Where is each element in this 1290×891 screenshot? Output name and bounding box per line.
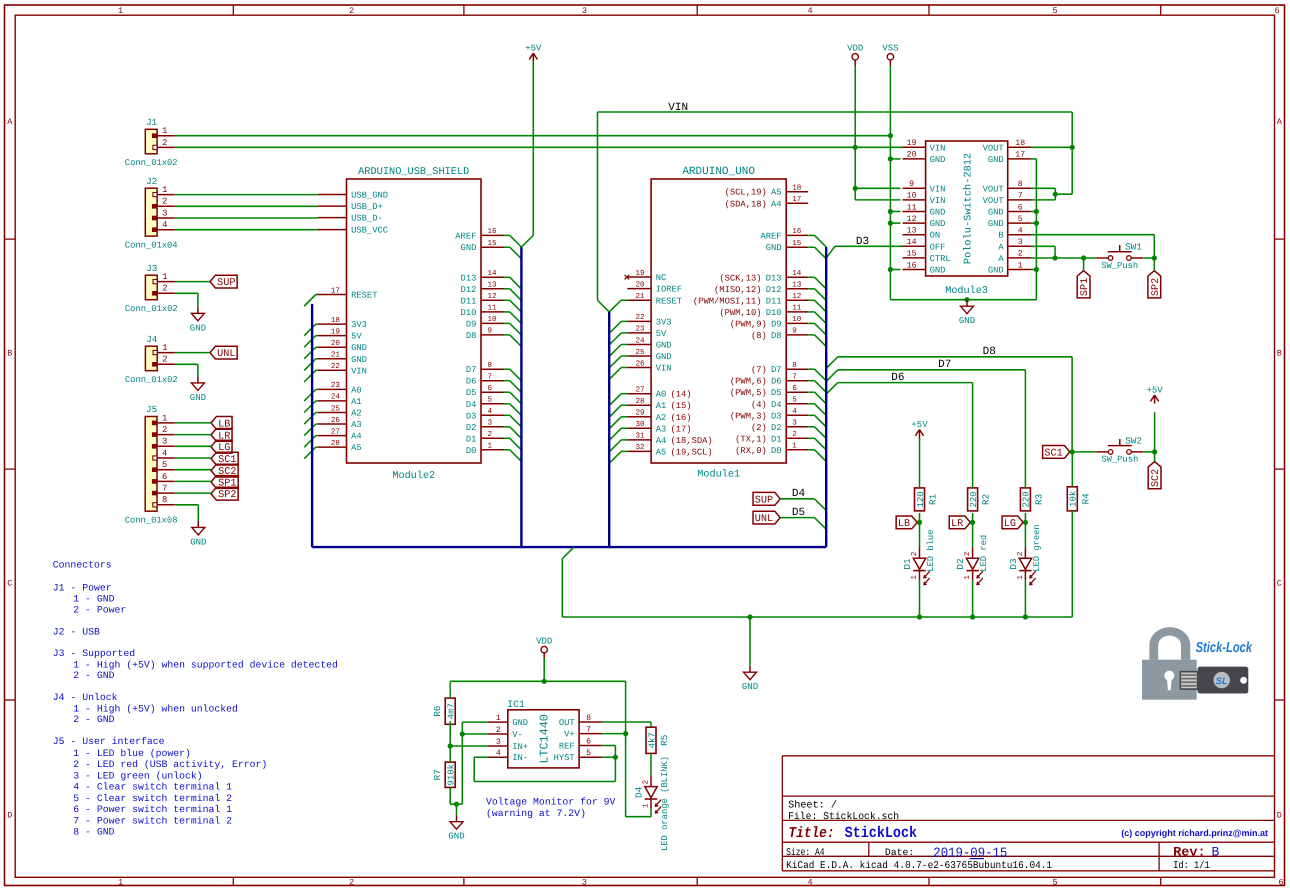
svg-text:19: 19 [907, 139, 917, 148]
svg-text:5: 5 [1018, 215, 1023, 224]
svg-text:A3: A3 [351, 420, 362, 430]
svg-text:2 - GND: 2 - GND [73, 670, 114, 681]
svg-text:3 - LED green (unlock): 3 - LED green (unlock) [73, 771, 202, 782]
svg-text:+5V: +5V [911, 420, 928, 430]
svg-text:VDD: VDD [847, 44, 863, 54]
svg-text:VDD: VDD [536, 636, 552, 646]
svg-text:7: 7 [1018, 192, 1023, 201]
svg-text:2 - LED red (USB activity, Err: 2 - LED red (USB activity, Error) [73, 759, 267, 770]
svg-text:(RX,0): (RX,0) [735, 446, 767, 456]
svg-text:2: 2 [963, 551, 972, 556]
svg-text:LED blue: LED blue [926, 530, 936, 572]
svg-text:8: 8 [586, 714, 591, 723]
svg-text:A3: A3 [656, 424, 667, 434]
svg-text:D4: D4 [771, 400, 782, 410]
svg-text:D2: D2 [771, 423, 782, 433]
svg-text:D11: D11 [766, 296, 782, 306]
svg-text:1: 1 [162, 272, 167, 282]
svg-text:5 - Clear switch terminal 2: 5 - Clear switch terminal 2 [73, 793, 232, 804]
svg-text:A: A [998, 254, 1004, 264]
svg-text:5: 5 [586, 749, 591, 758]
svg-text:A: A [1277, 117, 1283, 127]
svg-text:14: 14 [488, 270, 498, 278]
svg-text:27: 27 [331, 427, 340, 436]
svg-text:GND: GND [988, 155, 1004, 165]
svg-text:4k7: 4k7 [647, 732, 657, 748]
svg-text:ON: ON [930, 231, 941, 241]
svg-text:Title:: Title: [789, 825, 835, 842]
svg-text:28: 28 [331, 439, 341, 448]
svg-text:23: 23 [635, 325, 645, 334]
svg-text:D1: D1 [902, 558, 913, 570]
svg-text:R1: R1 [928, 493, 939, 505]
svg-text:OFF: OFF [930, 242, 946, 252]
svg-text:A0: A0 [656, 390, 667, 400]
svg-text:J1: J1 [146, 117, 158, 128]
svg-text:3: 3 [162, 437, 167, 447]
svg-text:1: 1 [162, 413, 167, 423]
svg-text:J3 - Supported: J3 - Supported [53, 648, 135, 659]
svg-text:(PWM/MOSI,11): (PWM/MOSI,11) [693, 296, 762, 306]
svg-text:SP2: SP2 [218, 490, 236, 501]
svg-text:(8): (8) [751, 331, 767, 341]
svg-text:VIN: VIN [930, 196, 946, 206]
svg-text:5: 5 [792, 397, 797, 405]
svg-text:8: 8 [488, 361, 493, 370]
svg-text:Voltage Monitor for 9V: Voltage Monitor for 9V [486, 797, 615, 808]
svg-text:6: 6 [586, 737, 591, 746]
svg-text:1 - GND: 1 - GND [73, 594, 114, 605]
svg-text:Stick-Lock: Stick-Lock [1196, 640, 1253, 656]
svg-text:J1 - Power: J1 - Power [53, 582, 112, 593]
svg-text:D3: D3 [771, 411, 782, 421]
svg-text:D8: D8 [983, 346, 996, 358]
svg-text:15: 15 [792, 240, 802, 248]
svg-text:A1: A1 [656, 401, 667, 411]
svg-text:1: 1 [118, 878, 123, 888]
svg-text:GND: GND [742, 682, 758, 692]
svg-text:10: 10 [488, 315, 498, 324]
svg-text:20: 20 [331, 339, 341, 348]
svg-text:GND: GND [988, 219, 1004, 229]
svg-text:D4: D4 [792, 488, 806, 500]
svg-text:Connectors: Connectors [53, 560, 112, 571]
svg-text:7: 7 [586, 725, 591, 734]
svg-text:20: 20 [635, 280, 645, 289]
svg-text:NC: NC [656, 273, 667, 283]
svg-text:9: 9 [488, 327, 493, 336]
svg-text:SC1: SC1 [1044, 448, 1062, 459]
svg-text:A4: A4 [656, 436, 667, 446]
svg-text:16: 16 [792, 227, 802, 236]
svg-text:(19,SCL): (19,SCL) [670, 447, 712, 457]
svg-text:1 - LED blue (power): 1 - LED blue (power) [73, 748, 191, 759]
svg-text:GND: GND [930, 155, 946, 165]
svg-text:18: 18 [331, 316, 341, 325]
svg-text:3: 3 [582, 878, 587, 888]
svg-text:(PWM,10): (PWM,10) [719, 308, 761, 318]
svg-text:(SCK,13): (SCK,13) [719, 273, 761, 283]
svg-text:UNL: UNL [755, 514, 773, 525]
svg-text:15: 15 [488, 240, 498, 248]
svg-text:5: 5 [1052, 6, 1057, 16]
svg-text:REF: REF [559, 742, 575, 752]
svg-text:A5: A5 [351, 443, 362, 453]
svg-text:13: 13 [792, 281, 802, 290]
svg-text:LTC1440: LTC1440 [538, 714, 552, 764]
svg-text:9: 9 [909, 180, 914, 189]
svg-text:(15): (15) [670, 401, 691, 411]
svg-text:18: 18 [1015, 139, 1025, 148]
svg-text:3: 3 [162, 208, 167, 218]
svg-text:17: 17 [792, 196, 801, 204]
svg-text:8: 8 [162, 495, 167, 505]
svg-text:6: 6 [488, 384, 493, 393]
svg-text:D9: D9 [771, 319, 782, 329]
svg-text:SW_Push: SW_Push [1101, 261, 1138, 271]
svg-text:D10: D10 [461, 308, 477, 318]
svg-text:3: 3 [1018, 238, 1023, 247]
svg-text:13: 13 [488, 281, 498, 290]
svg-text:4: 4 [792, 408, 797, 416]
svg-text:D6: D6 [466, 377, 477, 387]
svg-text:OUT: OUT [559, 718, 575, 728]
svg-text:GND: GND [959, 316, 975, 326]
svg-text:9: 9 [792, 327, 797, 336]
svg-text:GND: GND [448, 832, 464, 842]
svg-text:26: 26 [635, 359, 645, 368]
svg-text:D1: D1 [466, 434, 477, 444]
svg-text:SUP: SUP [755, 495, 773, 506]
svg-text:1: 1 [118, 6, 123, 16]
svg-text:(18,SDA): (18,SDA) [670, 436, 712, 446]
svg-text:21: 21 [635, 292, 645, 301]
svg-text:GND: GND [351, 343, 367, 353]
svg-text:910k: 910k [447, 764, 457, 786]
svg-text:GND: GND [988, 266, 1004, 276]
svg-text:D4: D4 [466, 400, 477, 410]
svg-text:11: 11 [488, 305, 498, 313]
svg-text:2: 2 [1016, 551, 1025, 556]
svg-text:(14): (14) [670, 390, 691, 400]
svg-text:D8: D8 [771, 331, 782, 341]
svg-text:AREF: AREF [455, 231, 476, 241]
svg-text:J2 - USB: J2 - USB [53, 626, 100, 637]
svg-text:GND: GND [656, 341, 672, 351]
svg-text:Id: 1/1: Id: 1/1 [1173, 860, 1210, 872]
svg-text:D0: D0 [466, 446, 477, 456]
svg-text:1: 1 [162, 343, 167, 353]
svg-text:10k: 10k [1069, 491, 1079, 507]
svg-text:ARDUINO_USB_SHIELD: ARDUINO_USB_SHIELD [358, 166, 469, 178]
svg-text:2 - GND: 2 - GND [73, 714, 114, 725]
svg-text:(PWM,6): (PWM,6) [730, 377, 767, 387]
svg-text:R5: R5 [659, 735, 670, 746]
svg-text:(PWM,5): (PWM,5) [730, 388, 767, 398]
svg-text:24: 24 [331, 393, 341, 402]
svg-text:StickLock: StickLock [845, 824, 918, 842]
svg-text:22: 22 [331, 362, 341, 371]
svg-text:VOUT: VOUT [983, 196, 1004, 206]
svg-text:SW_Push: SW_Push [1101, 455, 1138, 465]
svg-text:A1: A1 [351, 397, 362, 407]
svg-text:D13: D13 [766, 273, 782, 283]
svg-text:LR: LR [951, 519, 963, 530]
svg-text:D12: D12 [461, 285, 477, 295]
svg-text:120: 120 [916, 491, 926, 507]
svg-text:VIN: VIN [930, 143, 946, 153]
svg-text:GND: GND [512, 718, 528, 728]
svg-text:VIN: VIN [351, 366, 367, 376]
svg-text:5: 5 [1052, 878, 1057, 888]
svg-text:J4 - Unlock: J4 - Unlock [53, 692, 118, 703]
svg-text:4: 4 [496, 749, 501, 758]
svg-text:R6: R6 [432, 706, 443, 717]
svg-text:1: 1 [792, 443, 797, 451]
svg-text:5V: 5V [351, 332, 362, 342]
svg-text:B: B [1277, 349, 1282, 359]
svg-text:Conn_01x08: Conn_01x08 [125, 515, 178, 525]
svg-text:D2: D2 [955, 558, 966, 569]
svg-text:LED red: LED red [979, 535, 989, 572]
svg-text:1: 1 [162, 126, 167, 136]
svg-text:GND: GND [988, 208, 1004, 218]
svg-text:R3: R3 [1033, 494, 1044, 505]
svg-text:B: B [7, 349, 12, 359]
svg-text:2: 2 [792, 430, 797, 439]
svg-text:5: 5 [488, 397, 493, 405]
svg-text:CTRL: CTRL [930, 254, 951, 264]
svg-text:2: 2 [642, 780, 651, 785]
svg-text:Module1: Module1 [697, 468, 740, 480]
svg-text:LB: LB [898, 519, 910, 530]
svg-text:4 - Clear switch terminal 1: 4 - Clear switch terminal 1 [73, 782, 232, 793]
svg-text:GND: GND [766, 243, 782, 253]
svg-text:1 - High (+5V) when supported: 1 - High (+5V) when supported device det… [73, 659, 338, 670]
svg-text:6: 6 [1278, 878, 1283, 888]
svg-text:16: 16 [488, 227, 498, 236]
svg-text:KiCad E.D.A. kicad 4.0.7-e2-6: KiCad E.D.A. kicad 4.0.7-e2-63765Bubuntu… [786, 860, 1052, 872]
svg-text:(7): (7) [751, 365, 767, 375]
svg-text:IOREF: IOREF [656, 285, 682, 295]
svg-text:IN+: IN+ [512, 742, 528, 752]
svg-text:D7: D7 [466, 365, 477, 375]
svg-text:SUP: SUP [217, 278, 235, 289]
svg-text:3: 3 [792, 419, 797, 428]
svg-text:8: 8 [792, 361, 797, 370]
svg-text:C: C [7, 579, 12, 589]
svg-text:25: 25 [331, 404, 341, 413]
svg-text:AREF: AREF [760, 231, 781, 241]
svg-text:29: 29 [635, 409, 645, 418]
svg-text:D10: D10 [766, 308, 782, 318]
svg-text:Rev:: Rev: [1173, 845, 1206, 860]
svg-text:J4: J4 [146, 334, 158, 345]
svg-text:12: 12 [792, 292, 802, 301]
svg-text:1: 1 [1018, 261, 1023, 270]
svg-text:6: 6 [162, 472, 167, 482]
svg-text:30: 30 [635, 420, 645, 429]
svg-text:14: 14 [792, 270, 802, 278]
svg-text:15: 15 [907, 250, 917, 259]
svg-text:21: 21 [331, 351, 341, 360]
svg-text:Sheet: /: Sheet: / [788, 800, 837, 812]
svg-text:27: 27 [635, 386, 644, 395]
svg-text:4: 4 [807, 6, 812, 16]
svg-text:4m7: 4m7 [447, 703, 457, 719]
svg-text:6: 6 [792, 384, 797, 393]
svg-text:GND: GND [190, 323, 206, 333]
svg-text:31: 31 [635, 432, 645, 441]
svg-text:4: 4 [162, 448, 167, 458]
svg-text:A2: A2 [656, 413, 667, 423]
svg-text:3: 3 [582, 6, 587, 16]
svg-text:D8: D8 [466, 331, 477, 341]
svg-text:(17): (17) [670, 424, 691, 434]
svg-text:3: 3 [488, 419, 493, 428]
svg-text:32: 32 [635, 443, 645, 452]
svg-text:1: 1 [1017, 575, 1025, 580]
svg-text:2: 2 [910, 551, 919, 556]
svg-text:4: 4 [162, 220, 167, 230]
svg-text:D11: D11 [461, 296, 477, 306]
svg-text:GND: GND [461, 243, 477, 253]
svg-text:J5: J5 [146, 404, 157, 415]
svg-text:Conn_01x02: Conn_01x02 [125, 375, 178, 385]
svg-text:D6: D6 [891, 372, 904, 384]
svg-text:RESET: RESET [351, 291, 377, 301]
svg-text:A0: A0 [351, 385, 362, 395]
svg-text:2: 2 [162, 197, 167, 207]
svg-text:D5: D5 [792, 507, 805, 519]
svg-text:IC1: IC1 [507, 699, 525, 710]
svg-text:(TX,1): (TX,1) [735, 434, 767, 444]
svg-text:17: 17 [331, 287, 340, 295]
svg-text:220: 220 [1022, 491, 1032, 507]
svg-text:2: 2 [162, 284, 167, 294]
svg-text:HYST: HYST [554, 753, 575, 763]
svg-text:7 - Power switch terminal 2: 7 - Power switch terminal 2 [73, 816, 232, 827]
svg-text:7: 7 [792, 374, 797, 382]
svg-text:4: 4 [1018, 227, 1023, 236]
svg-text:5V: 5V [656, 329, 667, 339]
svg-text:D12: D12 [766, 285, 782, 295]
svg-text:VIN: VIN [930, 184, 946, 194]
svg-text:R4: R4 [1080, 493, 1091, 505]
svg-text:1: 1 [496, 714, 501, 723]
svg-text:File: StickLock.sch: File: StickLock.sch [788, 811, 899, 823]
svg-text:USB_D+: USB_D+ [351, 202, 383, 212]
svg-text:UNL: UNL [217, 349, 235, 360]
svg-text:D13: D13 [461, 273, 477, 283]
svg-text:LG: LG [1004, 519, 1016, 530]
svg-text:D4: D4 [633, 786, 644, 798]
svg-text:Conn_01x04: Conn_01x04 [125, 240, 178, 250]
svg-text:10: 10 [907, 192, 917, 201]
svg-text:V+: V+ [564, 730, 575, 740]
svg-text:(16): (16) [670, 413, 691, 423]
svg-text:12: 12 [488, 292, 498, 301]
svg-text:D0: D0 [771, 446, 782, 456]
svg-text:Date:: Date: [885, 847, 914, 858]
svg-text:2019-09-15: 2019-09-15 [933, 847, 1007, 862]
svg-text:26: 26 [331, 416, 341, 425]
svg-text:16: 16 [907, 261, 917, 270]
svg-text:Size: A4: Size: A4 [786, 847, 825, 859]
svg-text:13: 13 [907, 227, 917, 236]
svg-text:GND: GND [656, 352, 672, 362]
svg-text:D7: D7 [771, 365, 782, 375]
svg-text:D3: D3 [856, 236, 869, 248]
svg-text:25: 25 [635, 348, 645, 357]
svg-text:2: 2 [1018, 250, 1023, 259]
svg-text:2: 2 [349, 6, 354, 16]
svg-text:LED green: LED green [1032, 524, 1042, 572]
svg-text:1: 1 [162, 185, 167, 195]
svg-text:2: 2 [349, 878, 354, 888]
svg-text:3V3: 3V3 [351, 320, 367, 330]
svg-text:B: B [1212, 845, 1220, 860]
svg-text:2: 2 [162, 138, 167, 148]
svg-text:20: 20 [907, 151, 917, 160]
svg-text:GND: GND [190, 537, 206, 547]
svg-text:18: 18 [792, 184, 802, 193]
svg-text:A5: A5 [771, 188, 782, 198]
svg-text:6: 6 [1274, 6, 1279, 16]
svg-text:Conn_01x02: Conn_01x02 [125, 304, 178, 314]
svg-text:(SCL,19): (SCL,19) [725, 188, 767, 198]
svg-text:VIN: VIN [656, 364, 672, 374]
svg-text:VOUT: VOUT [983, 143, 1004, 153]
svg-text:RESET: RESET [656, 296, 682, 306]
svg-text:24: 24 [635, 336, 645, 345]
svg-text:D5: D5 [771, 388, 782, 398]
svg-text:D6: D6 [771, 377, 782, 387]
svg-text:D2: D2 [466, 423, 477, 433]
svg-text:19: 19 [331, 327, 341, 336]
svg-text:VSS: VSS [882, 44, 898, 54]
svg-text:3V3: 3V3 [656, 317, 672, 327]
svg-text:(warning at 7.2V): (warning at 7.2V) [486, 808, 586, 819]
svg-text:GND: GND [190, 393, 206, 403]
svg-text:6 - Power switch terminal 1: 6 - Power switch terminal 1 [73, 804, 232, 815]
svg-text:A4: A4 [351, 432, 362, 442]
svg-text:ARDUINO_UNO: ARDUINO_UNO [682, 166, 755, 178]
svg-text:12: 12 [907, 215, 917, 224]
svg-text:(PWM,3): (PWM,3) [730, 411, 767, 421]
svg-text:A5: A5 [656, 447, 667, 457]
svg-text:A2: A2 [351, 409, 362, 419]
svg-text:Module3: Module3 [945, 285, 988, 297]
svg-text:2: 2 [488, 430, 493, 439]
svg-text:7: 7 [488, 374, 493, 382]
svg-text:2: 2 [162, 355, 167, 365]
svg-text:(SDA,18): (SDA,18) [725, 199, 767, 209]
svg-text:1: 1 [911, 575, 919, 580]
svg-text:D3: D3 [1008, 558, 1019, 569]
svg-text:A: A [7, 117, 13, 127]
svg-text:(MISO,12): (MISO,12) [714, 285, 762, 295]
svg-text:R2: R2 [981, 494, 992, 505]
svg-text:R7: R7 [432, 769, 443, 780]
svg-text:D5: D5 [466, 388, 477, 398]
svg-text:1: 1 [488, 443, 493, 451]
svg-text:6: 6 [1018, 203, 1023, 212]
svg-text:1: 1 [964, 575, 972, 580]
svg-text:J5 - User interface: J5 - User interface [53, 736, 165, 747]
svg-text:IN-: IN- [512, 753, 528, 763]
svg-text:VOUT: VOUT [983, 184, 1004, 194]
